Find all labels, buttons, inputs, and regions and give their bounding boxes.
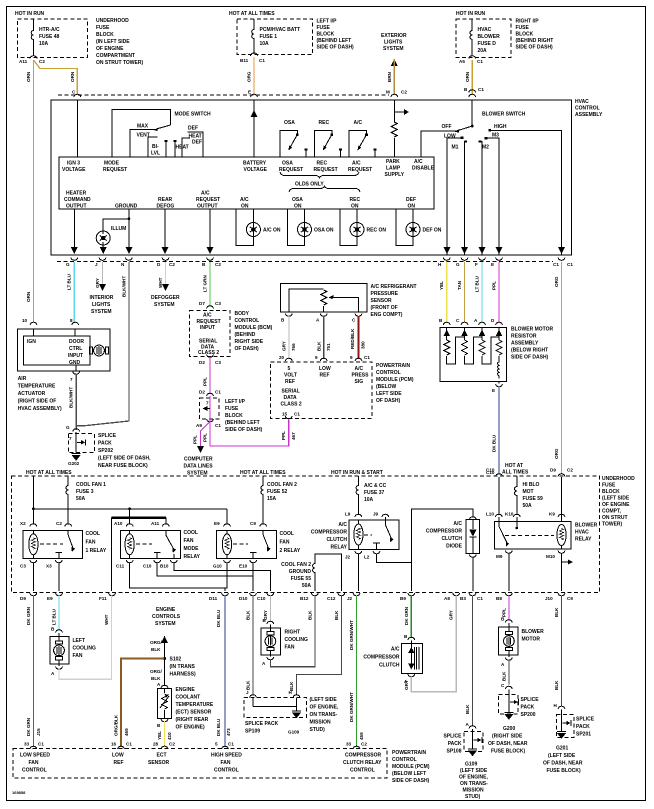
- svg-text:C1: C1: [294, 412, 300, 417]
- wire C10+E10 to D10: [157, 563, 253, 592]
- svg-text:ON: ON: [351, 204, 359, 210]
- svg-text:20A: 20A: [478, 48, 488, 54]
- svg-text:PPL: PPL: [492, 281, 497, 290]
- svg-text:OF ENGINE: OF ENGINE: [602, 502, 630, 508]
- svg-text:SIDE OF DASH): SIDE OF DASH): [392, 778, 430, 784]
- svg-text:C2: C2: [567, 468, 573, 473]
- wire LT BLU HVAC G to actuator pin 8: [67, 262, 75, 323]
- lamp A/C ON: [236, 209, 281, 245]
- node OSA ON: [292, 197, 303, 210]
- svg-text:ORN: ORN: [26, 71, 31, 82]
- svg-text:RESISTOR: RESISTOR: [511, 334, 537, 340]
- svg-text:D2: D2: [199, 360, 205, 365]
- svg-text:COMPRESSOR: COMPRESSOR: [426, 529, 463, 535]
- svg-text:C2: C2: [169, 742, 175, 747]
- svg-text:REF: REF: [320, 373, 330, 379]
- node IGN 3 VOLTAGE: [62, 100, 86, 173]
- svg-text:GROUND: GROUND: [289, 569, 312, 575]
- wire DK GRN D9 to PCM low speed: [24, 596, 44, 750]
- label HOT IN RUN (fuse D): [456, 11, 486, 17]
- svg-text:L9: L9: [345, 512, 351, 517]
- svg-text:DEF: DEF: [188, 126, 198, 132]
- svg-text:CLASS 2: CLASS 2: [281, 402, 302, 408]
- svg-text:MODE SWITCH: MODE SWITCH: [175, 112, 211, 118]
- svg-text:SIDE OF DASH): SIDE OF DASH): [516, 45, 554, 51]
- svg-text:PRESSURE: PRESSURE: [371, 291, 399, 297]
- svg-text:REC: REC: [317, 161, 328, 167]
- svg-text:G10: G10: [213, 564, 222, 569]
- svg-text:REQUEST: REQUEST: [103, 167, 127, 173]
- svg-text:BLK: BLK: [334, 610, 339, 620]
- svg-text:GRY: GRY: [449, 610, 454, 620]
- svg-text:ON TRANS-: ON TRANS-: [310, 712, 338, 718]
- fuse COOL FAN 1 FUSE 3 50A: [66, 476, 106, 509]
- connector dashed line top: [58, 94, 389, 96]
- svg-text:G109: G109: [465, 762, 477, 768]
- svg-text:9: 9: [315, 355, 318, 360]
- wire DK GRN/WHT J2 to PCM clutch relay control: [346, 596, 367, 750]
- svg-text:FUSE 1: FUSE 1: [260, 34, 278, 40]
- svg-text:FUSE 48: FUSE 48: [39, 34, 60, 40]
- svg-text:BLOWER MOTOR: BLOWER MOTOR: [511, 327, 554, 333]
- svg-text:(RIGHT SIDE OF: (RIGHT SIDE OF: [18, 399, 57, 405]
- wire BLK/WHT HVAC N to splice junction: [76, 262, 129, 426]
- svg-text:A/C REFRIGERANT: A/C REFRIGERANT: [371, 284, 417, 290]
- svg-text:G: G: [66, 425, 70, 430]
- svg-text:HOT IN RUN: HOT IN RUN: [456, 11, 486, 17]
- svg-text:ORN: ORN: [70, 71, 75, 82]
- svg-text:REC: REC: [319, 120, 330, 126]
- wire BLK diode C1 to splice A: [465, 596, 476, 729]
- svg-text:LIGHTS: LIGHTS: [92, 302, 111, 308]
- svg-text:(IN TRANS: (IN TRANS: [170, 664, 196, 670]
- svg-text:M2: M2: [482, 145, 489, 151]
- svg-text:BLK: BLK: [554, 607, 559, 617]
- node HIGH SPEED FAN CONTROL: [211, 753, 242, 774]
- svg-text:5: 5: [288, 366, 291, 372]
- svg-text:SP109: SP109: [245, 729, 260, 735]
- fuse COOL FAN 2 FUSE 52 15A: [261, 476, 297, 525]
- svg-text:E10: E10: [239, 564, 248, 569]
- wire TAN HVAC G to resistor C: [457, 262, 465, 323]
- svg-text:B8: B8: [496, 596, 502, 601]
- svg-text:BLK: BLK: [308, 610, 313, 620]
- svg-text:10A: 10A: [260, 41, 270, 47]
- wire rear defog column: [161, 209, 168, 254]
- fuse COOL FAN 2 GROUND FUSE 55 50A: [281, 554, 341, 591]
- wire ORG fuse1 to HVAC pin E: [247, 57, 255, 95]
- svg-text:380: 380: [361, 341, 366, 349]
- mode relay bottom pins C11 C10 B10: [116, 560, 177, 569]
- svg-text:OSA: OSA: [282, 161, 293, 167]
- svg-text:BLOCK: BLOCK: [225, 413, 243, 419]
- lamp ILLUM: [96, 217, 130, 254]
- label HOT IN RUN (fuse 48): [15, 11, 45, 17]
- SP201 text: [576, 717, 595, 738]
- switch A/C: [349, 120, 376, 157]
- brace OLDS ONLY: [280, 172, 360, 192]
- svg-text:DK GRN: DK GRN: [26, 606, 31, 625]
- svg-text:(LEFT SIDE: (LEFT SIDE: [602, 496, 630, 502]
- G201 location text: [543, 746, 583, 775]
- svg-text:G201: G201: [556, 746, 568, 752]
- right I/P fuse block box (dashed): [456, 19, 511, 58]
- switch OSA: [280, 120, 308, 157]
- svg-text:D9: D9: [20, 596, 26, 601]
- svg-text:SIDE OF DASH): SIDE OF DASH): [225, 427, 263, 433]
- svg-text:C1: C1: [228, 742, 234, 747]
- svg-text:A/C ON: A/C ON: [263, 228, 281, 234]
- diagram id code: [12, 790, 26, 795]
- svg-text:PPL: PPL: [281, 431, 286, 440]
- wire PPL to PCM serial data: [203, 420, 297, 447]
- svg-text:ORG/: ORG/: [150, 669, 162, 674]
- svg-text:FAN: FAN: [221, 760, 231, 766]
- right fan pin A: [262, 657, 274, 666]
- wire ground column: [125, 209, 132, 254]
- svg-text:ON STRUT: ON STRUT: [602, 515, 628, 521]
- svg-text:OF ENGINE,: OF ENGINE,: [459, 775, 489, 781]
- svg-text:28: 28: [153, 742, 159, 747]
- svg-text:PPL: PPL: [193, 435, 198, 444]
- cool fan mode relay box: [121, 531, 181, 559]
- svg-text:SYSTEM: SYSTEM: [154, 302, 175, 308]
- svg-text:HOT AT ALL TIMES: HOT AT ALL TIMES: [229, 11, 275, 17]
- svg-text:(BELOW RIGHT: (BELOW RIGHT: [511, 348, 548, 354]
- svg-text:(LEFT SIDE OF DASH,: (LEFT SIDE OF DASH,: [98, 456, 151, 462]
- label HOT AT ALL TIMES (fuse 1): [229, 11, 275, 17]
- svg-text:J2: J2: [345, 555, 351, 560]
- svg-text:F: F: [475, 262, 478, 267]
- left cooling fan box: [50, 633, 69, 666]
- pins along underhood bottom edge: [30, 593, 565, 596]
- svg-text:POWERTRAIN: POWERTRAIN: [376, 363, 411, 369]
- wire heater command output column: [71, 209, 78, 254]
- cool fan 1 relay box: [23, 531, 82, 559]
- svg-text:BLK: BLK: [502, 671, 507, 681]
- wire BLK blower to SP200: [501, 660, 512, 689]
- ground G202: [68, 454, 81, 467]
- svg-text:PPL: PPL: [203, 433, 208, 442]
- pin A9 C1: [196, 419, 221, 428]
- svg-text:ASSEMBLY: ASSEMBLY: [575, 112, 603, 118]
- svg-text:K10: K10: [505, 512, 514, 517]
- svg-text:CLUTCH: CLUTCH: [379, 663, 400, 669]
- engine controls system arrow: [152, 607, 181, 643]
- svg-text:ON: ON: [294, 204, 302, 210]
- svg-text:(LEFT SIDE: (LEFT SIDE: [460, 768, 488, 774]
- svg-text:BATTERY: BATTERY: [243, 161, 267, 167]
- svg-text:A/C: A/C: [338, 522, 347, 528]
- svg-text:OF DASH): OF DASH): [235, 346, 260, 352]
- svg-text:ILLUM: ILLUM: [111, 226, 126, 232]
- svg-text:C1: C1: [477, 596, 483, 601]
- feed wire into X2: [32, 476, 34, 509]
- label HVAC CONTROL ASSEMBLY: [575, 99, 603, 118]
- svg-text:MISSION: MISSION: [310, 720, 332, 726]
- svg-text:FUSE 52: FUSE 52: [267, 489, 288, 495]
- svg-text:LT BLU: LT BLU: [67, 273, 72, 290]
- svg-text:B10: B10: [160, 564, 169, 569]
- mode switch: [112, 110, 211, 158]
- cool fan mode relay text: [184, 530, 201, 560]
- svg-text:M1: M1: [452, 145, 459, 151]
- svg-text:SIDE OF DASH): SIDE OF DASH): [511, 355, 549, 361]
- svg-text:ENGINE: ENGINE: [176, 687, 196, 693]
- svg-text:EXTERIOR: EXTERIOR: [381, 33, 407, 39]
- svg-text:COMPRESSOR: COMPRESSOR: [345, 753, 382, 759]
- svg-text:CTRL: CTRL: [69, 346, 82, 352]
- svg-text:C2: C2: [169, 262, 175, 267]
- ECT sensor text: [176, 687, 214, 731]
- splice pack SP200 box (dashed): [499, 690, 519, 715]
- wire BLK 751 sensor A to PCM low ref: [317, 316, 332, 359]
- pressure sensor location text: [371, 284, 417, 318]
- svg-text:MAX: MAX: [137, 124, 149, 130]
- SP109 text: [245, 721, 279, 735]
- bottom edge pin labels: [20, 596, 573, 601]
- svg-text:REAR: REAR: [158, 197, 173, 203]
- svg-text:HVAC: HVAC: [575, 530, 589, 536]
- svg-text:C1: C1: [259, 58, 265, 63]
- wire BRN exterior lights to HVAC pin M: [386, 59, 407, 95]
- svg-text:15: 15: [282, 412, 288, 417]
- svg-text:FAN: FAN: [184, 538, 194, 544]
- svg-text:CONTROLS: CONTROLS: [152, 614, 181, 620]
- PCM pins 20 9 9 C1: [279, 355, 370, 361]
- node OSA REQUEST: [279, 161, 303, 174]
- svg-text:REC: REC: [350, 197, 361, 203]
- SP108 text: [443, 734, 462, 755]
- svg-text:COOL: COOL: [184, 530, 198, 536]
- svg-text:SYSTEM: SYSTEM: [155, 621, 176, 627]
- IP connector location text: [225, 399, 263, 433]
- svg-text:INPUT: INPUT: [200, 325, 215, 331]
- wire DK BLU D11 to PCM high speed: [215, 596, 234, 750]
- park lamp resistor from pin M: [391, 100, 409, 157]
- svg-text:C9: C9: [250, 521, 256, 526]
- svg-text:RIGHT: RIGHT: [285, 630, 301, 636]
- wire GRY clutch A to A8: [404, 596, 456, 692]
- svg-text:COOL FAN 2: COOL FAN 2: [281, 562, 311, 568]
- node DEF ON: [406, 197, 416, 210]
- svg-text:C1: C1: [553, 262, 559, 267]
- svg-text:ORN: ORN: [26, 291, 31, 302]
- svg-text:J: J: [95, 262, 98, 267]
- svg-text:MODE: MODE: [104, 161, 120, 167]
- svg-text:TEMPERATURE: TEMPERATURE: [176, 702, 214, 708]
- wire PPL BCM to IP connector: [199, 357, 221, 396]
- svg-text:DK BLU: DK BLU: [492, 434, 497, 452]
- svg-text:HTR-A/C: HTR-A/C: [39, 27, 60, 33]
- svg-text:50A: 50A: [302, 583, 312, 589]
- wire LT BLU E9 to left cooling fan: [51, 596, 62, 633]
- svg-text:GRY: GRY: [282, 341, 287, 351]
- svg-text:C10: C10: [143, 564, 152, 569]
- svg-text:HIGH: HIGH: [494, 124, 507, 130]
- svg-text:GRY: GRY: [95, 278, 100, 288]
- svg-text:B12: B12: [300, 596, 309, 601]
- svg-text:STUD): STUD): [310, 727, 326, 733]
- svg-text:A10: A10: [114, 521, 123, 526]
- svg-text:C1: C1: [215, 390, 221, 395]
- G109 location text: [459, 762, 489, 801]
- svg-text:BLOCK: BLOCK: [317, 32, 335, 38]
- svg-text:BLK: BLK: [465, 704, 470, 714]
- svg-text:FUSE: FUSE: [602, 483, 616, 489]
- body control module BCM box (dashed): [190, 310, 230, 356]
- svg-text:SP202: SP202: [98, 448, 113, 454]
- svg-text:BLK: BLK: [246, 680, 251, 690]
- svg-text:B9: B9: [400, 596, 406, 601]
- exterior lights system arrow: [381, 33, 407, 66]
- pin X2: [20, 509, 37, 527]
- resistor output pin E: [492, 384, 502, 393]
- clutch relay bottom pins J2 L2: [345, 551, 380, 560]
- wire BLK right fan A to B12: [270, 596, 315, 667]
- svg-text:COMMAND: COMMAND: [64, 197, 91, 203]
- wire GRY HVAC J to interior lights: [90, 262, 114, 315]
- svg-text:CLUTCH: CLUTCH: [441, 536, 462, 542]
- svg-text:(LEFT SIDE: (LEFT SIDE: [548, 753, 576, 759]
- svg-text:(BELOW LEFT: (BELOW LEFT: [392, 771, 426, 777]
- svg-text:DIODE: DIODE: [446, 544, 463, 550]
- pin D2 C3: [199, 354, 221, 365]
- wire LT BLU HVAC F to resistor A: [475, 262, 483, 323]
- svg-text:CLASS 2: CLASS 2: [198, 350, 219, 356]
- svg-text:VENT: VENT: [137, 133, 150, 139]
- svg-text:C3: C3: [215, 301, 221, 306]
- svg-text:DK BLU: DK BLU: [216, 609, 221, 627]
- svg-text:J2: J2: [347, 596, 353, 601]
- svg-text:PRESS: PRESS: [352, 373, 370, 379]
- svg-text:FUSE BLOCK): FUSE BLOCK): [547, 768, 582, 774]
- svg-text:COMPARTMENT: COMPARTMENT: [96, 53, 135, 59]
- svg-text:OFF: OFF: [442, 124, 452, 130]
- svg-text:DK GRN/WHT: DK GRN/WHT: [349, 692, 354, 722]
- svg-text:S102: S102: [170, 657, 182, 663]
- svg-text:REQUEST: REQUEST: [196, 197, 220, 203]
- svg-text:REC ON: REC ON: [367, 228, 387, 234]
- svg-text:NEAR FUSE BLOCK): NEAR FUSE BLOCK): [98, 463, 148, 469]
- svg-text:HVAC: HVAC: [478, 27, 492, 33]
- svg-text:FUSE: FUSE: [516, 25, 530, 31]
- wire PPL B8 to blower motor: [501, 596, 512, 623]
- svg-text:33: 33: [346, 742, 352, 747]
- svg-text:LEFT I/P: LEFT I/P: [225, 399, 246, 405]
- svg-text:ORN: ORN: [465, 71, 470, 82]
- svg-text:L10: L10: [486, 512, 494, 517]
- svg-text:INTERIOR: INTERIOR: [90, 295, 114, 301]
- wire M10 to J10 with arrow: [562, 553, 574, 591]
- svg-text:(BEHIND RIGHT: (BEHIND RIGHT: [516, 38, 554, 44]
- svg-text:10A: 10A: [39, 41, 49, 47]
- svg-text:COOLING: COOLING: [73, 646, 96, 652]
- BCM location text: [235, 311, 273, 352]
- svg-text:B11: B11: [240, 58, 249, 63]
- svg-text:OF DASH, NEAR: OF DASH, NEAR: [543, 761, 583, 767]
- svg-text:C12: C12: [327, 596, 336, 601]
- svg-text:BRN: BRN: [387, 71, 392, 82]
- splice pack SP202 box (dashed): [68, 432, 94, 453]
- svg-text:CONTROL: CONTROL: [22, 768, 47, 774]
- label HOT AT ALL TIMES (blower): [502, 463, 529, 476]
- pins on HVAC top edge: [74, 94, 476, 97]
- svg-text:PACK: PACK: [576, 724, 590, 730]
- clutch diode text: [426, 521, 463, 550]
- svg-text:(IN LEFT SIDE: (IN LEFT SIDE: [96, 39, 130, 45]
- svg-text:BI-: BI-: [152, 144, 159, 150]
- svg-text:CONTROL: CONTROL: [350, 768, 375, 774]
- node REC ON: [350, 197, 361, 210]
- svg-text:M: M: [386, 90, 390, 95]
- svg-text:MODULE (PCM): MODULE (PCM): [376, 377, 414, 383]
- svg-text:REQUEST: REQUEST: [197, 319, 221, 325]
- HVAC control assembly box: [51, 100, 572, 255]
- svg-text:DEF: DEF: [406, 197, 416, 203]
- svg-text:COMPRESSOR: COMPRESSOR: [311, 530, 348, 536]
- svg-text:A/C: A/C: [354, 120, 363, 126]
- svg-text:MODULE (PCM): MODULE (PCM): [392, 764, 430, 770]
- blower motor resistor assembly box: [440, 327, 506, 383]
- wire C10 to L10: [486, 468, 499, 516]
- svg-text:FUSE 55: FUSE 55: [291, 576, 312, 582]
- wire ORN fuse D to HVAC pin B: [464, 60, 484, 94]
- svg-text:OUTPUT: OUTPUT: [66, 204, 87, 210]
- svg-text:C3: C3: [20, 564, 26, 569]
- wire ORN fuse48 to actuator pin 10: [26, 60, 34, 323]
- svg-text:M9: M9: [496, 554, 503, 559]
- pins L9 J9: [345, 512, 389, 521]
- connector dashed line bottom of HVAC: [57, 261, 553, 263]
- wire ORG/BLK S102 to PCM low ref (brown): [111, 659, 165, 750]
- svg-text:OF ENGINE: OF ENGINE: [96, 46, 124, 52]
- switch REC: [314, 120, 342, 157]
- svg-text:C2: C2: [56, 521, 62, 526]
- svg-text:FUSE: FUSE: [317, 25, 331, 31]
- svg-text:9: 9: [350, 355, 353, 360]
- svg-text:COOLANT: COOLANT: [176, 695, 201, 701]
- lamp DEF ON: [396, 209, 442, 245]
- PCM serial data pin 15 C1: [282, 412, 300, 419]
- wire PPL HVAC E to resistor D: [492, 262, 500, 323]
- svg-text:J: J: [246, 690, 249, 695]
- svg-text:A/C: A/C: [352, 161, 361, 167]
- svg-text:MISSION: MISSION: [463, 788, 485, 794]
- svg-text:REQUEST: REQUEST: [279, 167, 303, 173]
- svg-text:LEFT SIDE: LEFT SIDE: [376, 391, 402, 397]
- svg-text:CLUTCH: CLUTCH: [326, 537, 347, 543]
- svg-text:DATA: DATA: [284, 395, 298, 401]
- svg-text:ENG COMPT): ENG COMPT): [371, 312, 403, 318]
- svg-text:SENSOR: SENSOR: [148, 760, 170, 766]
- svg-text:MOTOR: MOTOR: [522, 637, 541, 643]
- svg-text:(RIGHT SIDE: (RIGHT SIDE: [492, 734, 523, 740]
- svg-text:PACK: PACK: [521, 705, 535, 711]
- svg-text:PARK: PARK: [386, 159, 400, 165]
- svg-text:HEAT: HEAT: [176, 145, 189, 151]
- svg-text:DATA LINES: DATA LINES: [184, 464, 214, 470]
- svg-text:A/C & CC: A/C & CC: [364, 483, 387, 489]
- svg-text:BLOWER SWITCH: BLOWER SWITCH: [482, 112, 526, 118]
- svg-text:LOW: LOW: [319, 366, 331, 372]
- wire ORG/BLK S102 to ECT sensor: [150, 659, 168, 689]
- label HOT AT ALL TIMES (cool fan 2): [240, 470, 286, 476]
- svg-text:VOLTAGE: VOLTAGE: [62, 167, 86, 173]
- node REC REQUEST: [314, 161, 338, 174]
- svg-text:ORG: ORG: [247, 71, 252, 82]
- ground G200: [504, 713, 513, 720]
